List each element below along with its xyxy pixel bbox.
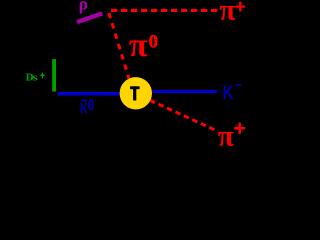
wire: red dashed line rho to T vertex [109,13,130,80]
svg-text:0: 0 [88,97,94,115]
wire: red dashed line T to pi+ (bottom) [150,100,218,131]
Ds+ meson bar (green vertical) [52,59,56,91]
pi0 label (middle) [129,27,158,64]
pi+ label (bottom right) [218,116,246,153]
svg-text:+: + [40,71,44,83]
T vertex (yellow circle) [120,77,152,109]
rho meson bar (thick magenta diagonal) [77,13,102,22]
svg-text:+: + [233,116,246,141]
K- label (right) [223,82,242,103]
svg-text:s: s [32,71,38,83]
svg-text:K: K [80,100,87,116]
wire: red dashed line rho to pi+ (top) [111,9,217,12]
svg-text:π: π [218,121,234,151]
Ds+ label [26,71,45,84]
pi+ label (top right) [219,0,246,27]
svg-text:+: + [235,0,246,18]
svg-text:ρ: ρ [79,0,88,14]
K0bar label [80,97,94,117]
wire: blue line K0bar from Ds to T [58,92,127,96]
svg-text:π: π [219,0,236,27]
wire: blue line T to K- [152,90,217,93]
T label (drawn as rects for crisp stem) [130,86,140,100]
svg-text:0: 0 [149,31,159,52]
svg-text:K: K [223,82,234,103]
svg-text:π: π [129,27,148,64]
